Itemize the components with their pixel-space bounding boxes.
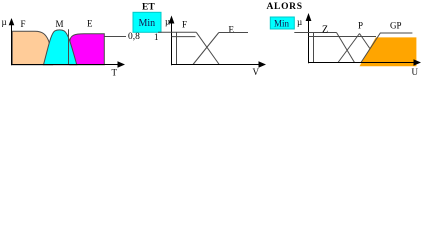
mu axis chart2 (171, 18, 173, 65)
svg-text:E: E (87, 19, 93, 29)
level-1 line and F flat top (158, 31, 196, 33)
svg-text:1: 1 (154, 32, 159, 42)
svg-text:U: U (412, 67, 419, 77)
membership M (cyan dome) (44, 30, 77, 65)
F descending slope (196, 32, 219, 64)
svg-text:Min: Min (139, 18, 156, 29)
Z descending slope (337, 33, 355, 63)
svg-text:ET: ET (142, 3, 155, 13)
svg-text:F: F (21, 19, 26, 29)
Z flat top + leader from Min box (294, 32, 336, 34)
membership E (magenta clipped shape) (70, 34, 105, 65)
Min box ALORS (270, 17, 294, 29)
svg-text:0,8: 0,8 (128, 32, 140, 42)
svg-text:µ: µ (165, 17, 170, 27)
svg-text:F: F (182, 20, 187, 30)
clipped output area GP (orange) (360, 37, 417, 66)
input marker line T0 (68, 29, 70, 65)
svg-text:µ: µ (2, 17, 7, 27)
GP outline (361, 33, 412, 63)
mu axis chart3 (308, 16, 310, 64)
T axis chart1 (12, 64, 121, 66)
E ascending slope (193, 33, 219, 65)
svg-text:T: T (112, 68, 118, 78)
membership F (peach trapezoid) (12, 31, 52, 65)
svg-text:Min: Min (274, 19, 290, 29)
0.8 level line chart3 (309, 36, 377, 38)
E flat top (219, 32, 248, 34)
input marker line U (313, 33, 315, 63)
svg-text:µ: µ (297, 17, 302, 27)
leader line to 0,8 label (104, 36, 126, 38)
Min box ET (133, 12, 161, 32)
svg-text:ALORS: ALORS (267, 2, 303, 12)
svg-text:M: M (56, 19, 64, 29)
svg-text:Z: Z (322, 24, 328, 35)
U axis chart3 (309, 62, 417, 64)
svg-text:V: V (253, 67, 260, 77)
svg-text:P: P (358, 21, 363, 31)
P ascending slope (338, 34, 360, 63)
input marker line V0 (176, 32, 178, 65)
P descending slope (under orange) (360, 34, 380, 63)
V axis chart2 (172, 64, 262, 66)
svg-text:GP: GP (390, 20, 402, 30)
mu axis chart1 (11, 19, 13, 65)
0.8 level line chart2 (172, 36, 196, 38)
